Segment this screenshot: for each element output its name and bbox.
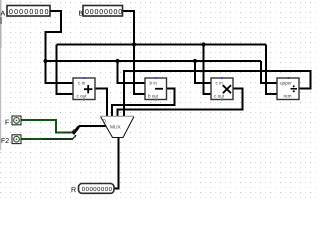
svg-text:1: 1 [74,135,76,139]
svg-text:F2: F2 [1,138,9,145]
svg-text:0: 0 [103,119,106,125]
svg-text:c in: c in [216,81,224,86]
svg-text:00000000: 00000000 [9,9,50,16]
svg-text:b out: b out [148,94,159,99]
svg-text:c out: c out [77,94,88,99]
svg-text:c in: c in [78,81,86,86]
svg-text:0: 0 [73,129,75,133]
svg-text:00000000: 00000000 [85,9,123,16]
svg-text:rem: rem [284,94,292,99]
svg-text:B: B [79,10,84,17]
svg-text:upper: upper [280,81,292,86]
svg-text:c out: c out [214,94,225,99]
svg-text:MUX: MUX [110,124,121,130]
svg-text:R: R [71,187,76,194]
svg-text:A: A [1,10,6,17]
svg-text:F: F [5,120,9,127]
svg-text:b in: b in [150,81,158,86]
svg-text:00000000: 00000000 [82,186,113,193]
